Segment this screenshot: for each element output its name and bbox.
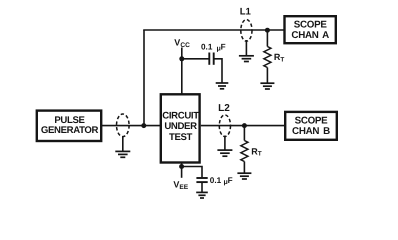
svg-text:TEST: TEST — [169, 132, 193, 143]
svg-text:GENERATOR: GENERATOR — [41, 125, 99, 136]
svg-text:SCOPE: SCOPE — [295, 115, 329, 126]
wire: node B down to resistor RT1 — [266, 30, 268, 47]
wire: Vee lead below circuit under test — [181, 163, 183, 178]
ground under capacitor C1 — [216, 83, 229, 89]
scope channel B box — [285, 112, 337, 140]
svg-text:RT: RT — [274, 52, 285, 63]
ground under resistor RT1 — [260, 83, 274, 89]
svg-text:UNDER: UNDER — [164, 121, 197, 132]
svg-text:L1: L1 — [240, 7, 252, 18]
circuit under test box U1 — [161, 94, 200, 162]
ground under input probe — [115, 151, 130, 157]
resistor RT1 zigzag — [264, 47, 271, 68]
svg-text:0.1μF: 0.1μF — [210, 176, 233, 186]
svg-text:CHAN A: CHAN A — [291, 30, 329, 41]
svg-text:RT: RT — [251, 146, 261, 157]
coax probe ellipse L2 — [219, 115, 230, 137]
wire: L1 probe shield to ground — [245, 40, 247, 55]
svg-text:CHAN B: CHAN B — [292, 126, 330, 137]
wire: input probe shield to ground — [122, 136, 124, 151]
svg-text:L2: L2 — [218, 103, 230, 114]
svg-text:SCOPE: SCOPE — [294, 19, 328, 30]
wire: C1 right plate to ground — [214, 59, 222, 83]
Vcc node junction dot — [179, 56, 184, 61]
node C junction dot — [242, 123, 247, 128]
svg-text:VEE: VEE — [173, 180, 188, 191]
wire: Vee node to bypass capacitor C2 — [182, 167, 202, 178]
Vee node junction dot — [179, 164, 184, 169]
svg-text:0.1μF: 0.1μF — [201, 42, 226, 52]
wire: pulse generator output to circuit under test — [102, 125, 160, 127]
wire: Vcc lead down into circuit under test — [181, 48, 183, 95]
node A junction dot — [141, 123, 146, 128]
wire: C2 bottom plate to ground — [201, 183, 203, 192]
wire: top horizontal run to scope chan A — [143, 29, 284, 31]
ground under resistor RT2 — [237, 173, 251, 179]
wire: circuit under test output to scope chan B — [201, 125, 285, 127]
capacitor C2 0.1uF plates — [196, 178, 207, 182]
svg-text:CIRCUIT: CIRCUIT — [162, 111, 199, 122]
coax probe ellipse L1 — [241, 20, 252, 42]
svg-text:VCC: VCC — [174, 38, 190, 50]
wire: node C down to resistor RT2 — [243, 126, 245, 141]
wire: vertical branch up from node A — [143, 30, 145, 126]
ground under L2 — [217, 150, 232, 156]
ground under capacitor C2 — [196, 192, 208, 198]
ground under L1 — [239, 56, 254, 62]
wire: RT1 bottom to ground — [266, 68, 268, 83]
resistor RT2 zigzag — [241, 141, 248, 162]
capacitor C1 0.1uF plates — [209, 53, 213, 65]
coax probe ellipse at pulse generator output — [117, 114, 130, 137]
wire: Vcc node to bypass capacitor C1 — [182, 58, 209, 60]
wire: L2 probe shield to ground — [224, 136, 226, 150]
node B junction dot — [265, 28, 270, 33]
wire: RT2 bottom to ground — [243, 162, 245, 173]
pulse generator box — [37, 111, 101, 141]
scope channel A box — [285, 16, 336, 43]
